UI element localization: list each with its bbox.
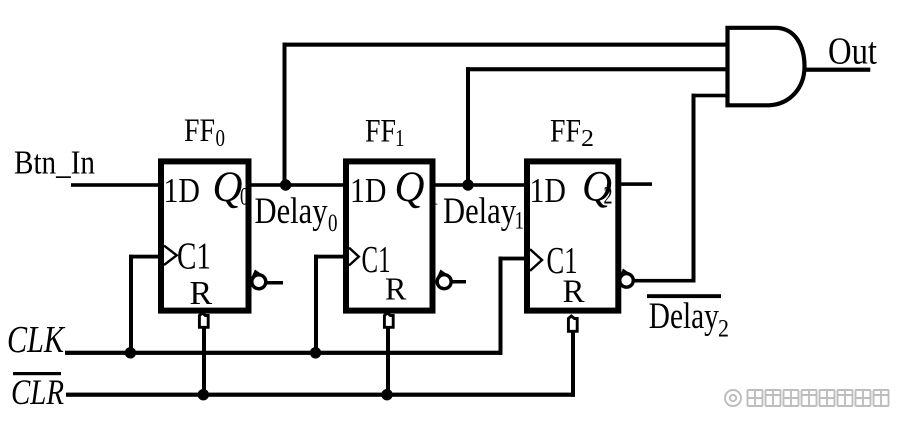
FF2 inverted-output polarity bubble <box>620 271 634 288</box>
svg-text:2: 2 <box>581 126 594 152</box>
node CLR-FF1 junction dot <box>381 389 392 400</box>
net label Delay1 <box>443 191 524 235</box>
label FF0 <box>184 113 225 152</box>
wire CLR line <box>66 393 575 397</box>
flip-flop FF1 box <box>346 161 433 310</box>
svg-text:Btn_In: Btn_In <box>14 145 95 182</box>
svg-text:1: 1 <box>515 208 525 235</box>
wire bus0 vertical from node Delay0 <box>283 43 287 187</box>
wire bus1 vertical from node Delay1 <box>466 67 470 186</box>
svg-text:CLK: CLK <box>7 319 65 361</box>
wire FF0 C1 horizontal <box>129 255 161 259</box>
wire FF2 R vertical to CLR <box>571 331 575 397</box>
pin label Q1 of FF1 <box>395 164 439 211</box>
wire FF1 C1 horizontal <box>314 255 346 259</box>
svg-text:FF: FF <box>550 114 581 150</box>
label FF1 <box>365 114 405 153</box>
wire FF2 C1 horizontal <box>499 257 528 261</box>
svg-text:R: R <box>385 271 407 307</box>
pin label Q2 of FF2 <box>582 164 613 211</box>
FF0 inverted-output polarity bubble <box>252 272 266 289</box>
FF1 inverted-output polarity bubble <box>437 272 451 289</box>
node CLK-FF0 junction dot <box>125 347 136 358</box>
svg-text:CLR: CLR <box>11 372 64 412</box>
node Delay1 junction dot <box>462 179 473 190</box>
svg-text:1D: 1D <box>164 171 201 210</box>
wire CLK line <box>65 351 503 355</box>
svg-text:1D: 1D <box>350 171 387 210</box>
svg-text:R: R <box>190 275 213 312</box>
node CLK-FF1 junction dot <box>310 347 321 358</box>
svg-text:FF: FF <box>184 113 215 149</box>
node CLR-FF0 junction dot <box>198 389 209 400</box>
FF1 reset input square pin <box>384 313 393 327</box>
wire FF0 inverted output stub <box>264 281 283 285</box>
wire bus1 horizontal to AND gate <box>466 67 728 71</box>
wire Btn_In input <box>71 183 160 187</box>
wire bus0 horizontal to AND gate <box>283 43 728 47</box>
svg-text:1D: 1D <box>530 171 567 210</box>
label CLR with overline <box>11 372 64 412</box>
wire bus2 horizontal into AND gate <box>692 94 728 98</box>
FF2 clock triangle pin <box>530 249 542 271</box>
wire Q0 to FF1 <box>249 183 345 187</box>
svg-text:FF: FF <box>365 114 396 150</box>
net label Delay0 <box>255 191 338 237</box>
net label Delay2 with overline <box>647 294 729 342</box>
svg-text:Q: Q <box>213 164 243 211</box>
FF2 reset input square pin <box>568 316 577 331</box>
watermark <box>725 390 889 406</box>
wire FF0 R vertical to CLR <box>202 328 206 397</box>
svg-text:0: 0 <box>216 126 226 152</box>
svg-text:Q: Q <box>395 164 425 211</box>
svg-text:1: 1 <box>430 184 439 211</box>
AND gate U1 <box>728 28 805 106</box>
svg-text:2: 2 <box>604 183 613 210</box>
FF1 clock triangle pin <box>349 248 359 266</box>
wire Q2 stub <box>619 182 652 186</box>
svg-text:0: 0 <box>328 210 338 237</box>
flip-flop FF2 box <box>527 161 618 310</box>
wire FF1 inverted output stub <box>450 280 466 284</box>
svg-text:0: 0 <box>240 184 249 211</box>
svg-text:Out: Out <box>828 30 877 72</box>
svg-text:C1: C1 <box>177 236 211 278</box>
wire FF2 C1 vertical to CLK <box>499 257 503 355</box>
wire FF0 C1 vertical to CLK <box>129 255 133 355</box>
wire Delay2bar stub to bus2 <box>631 279 696 283</box>
FF0 clock triangle pin <box>164 246 177 265</box>
svg-text:1: 1 <box>395 126 405 152</box>
svg-text:Delay: Delay <box>443 191 516 232</box>
node Delay0 junction dot <box>280 179 291 190</box>
svg-text:2: 2 <box>718 316 729 343</box>
wire Q1 to FF2 <box>433 183 526 187</box>
pin label Q0 of FF0 <box>213 164 250 211</box>
flip-flop FF0 box <box>161 161 249 310</box>
svg-text:Delay: Delay <box>255 191 328 232</box>
svg-text:R: R <box>563 274 585 310</box>
FF0 reset input square pin <box>199 313 208 327</box>
label FF2 <box>550 114 594 153</box>
wire bus2 vertical to AND gate <box>692 94 696 283</box>
wire FF1 R vertical to CLR <box>386 328 390 397</box>
svg-text:Delay: Delay <box>649 296 719 337</box>
wire AND output to Out <box>803 68 870 72</box>
wire FF1 C1 vertical to CLK <box>314 255 318 355</box>
